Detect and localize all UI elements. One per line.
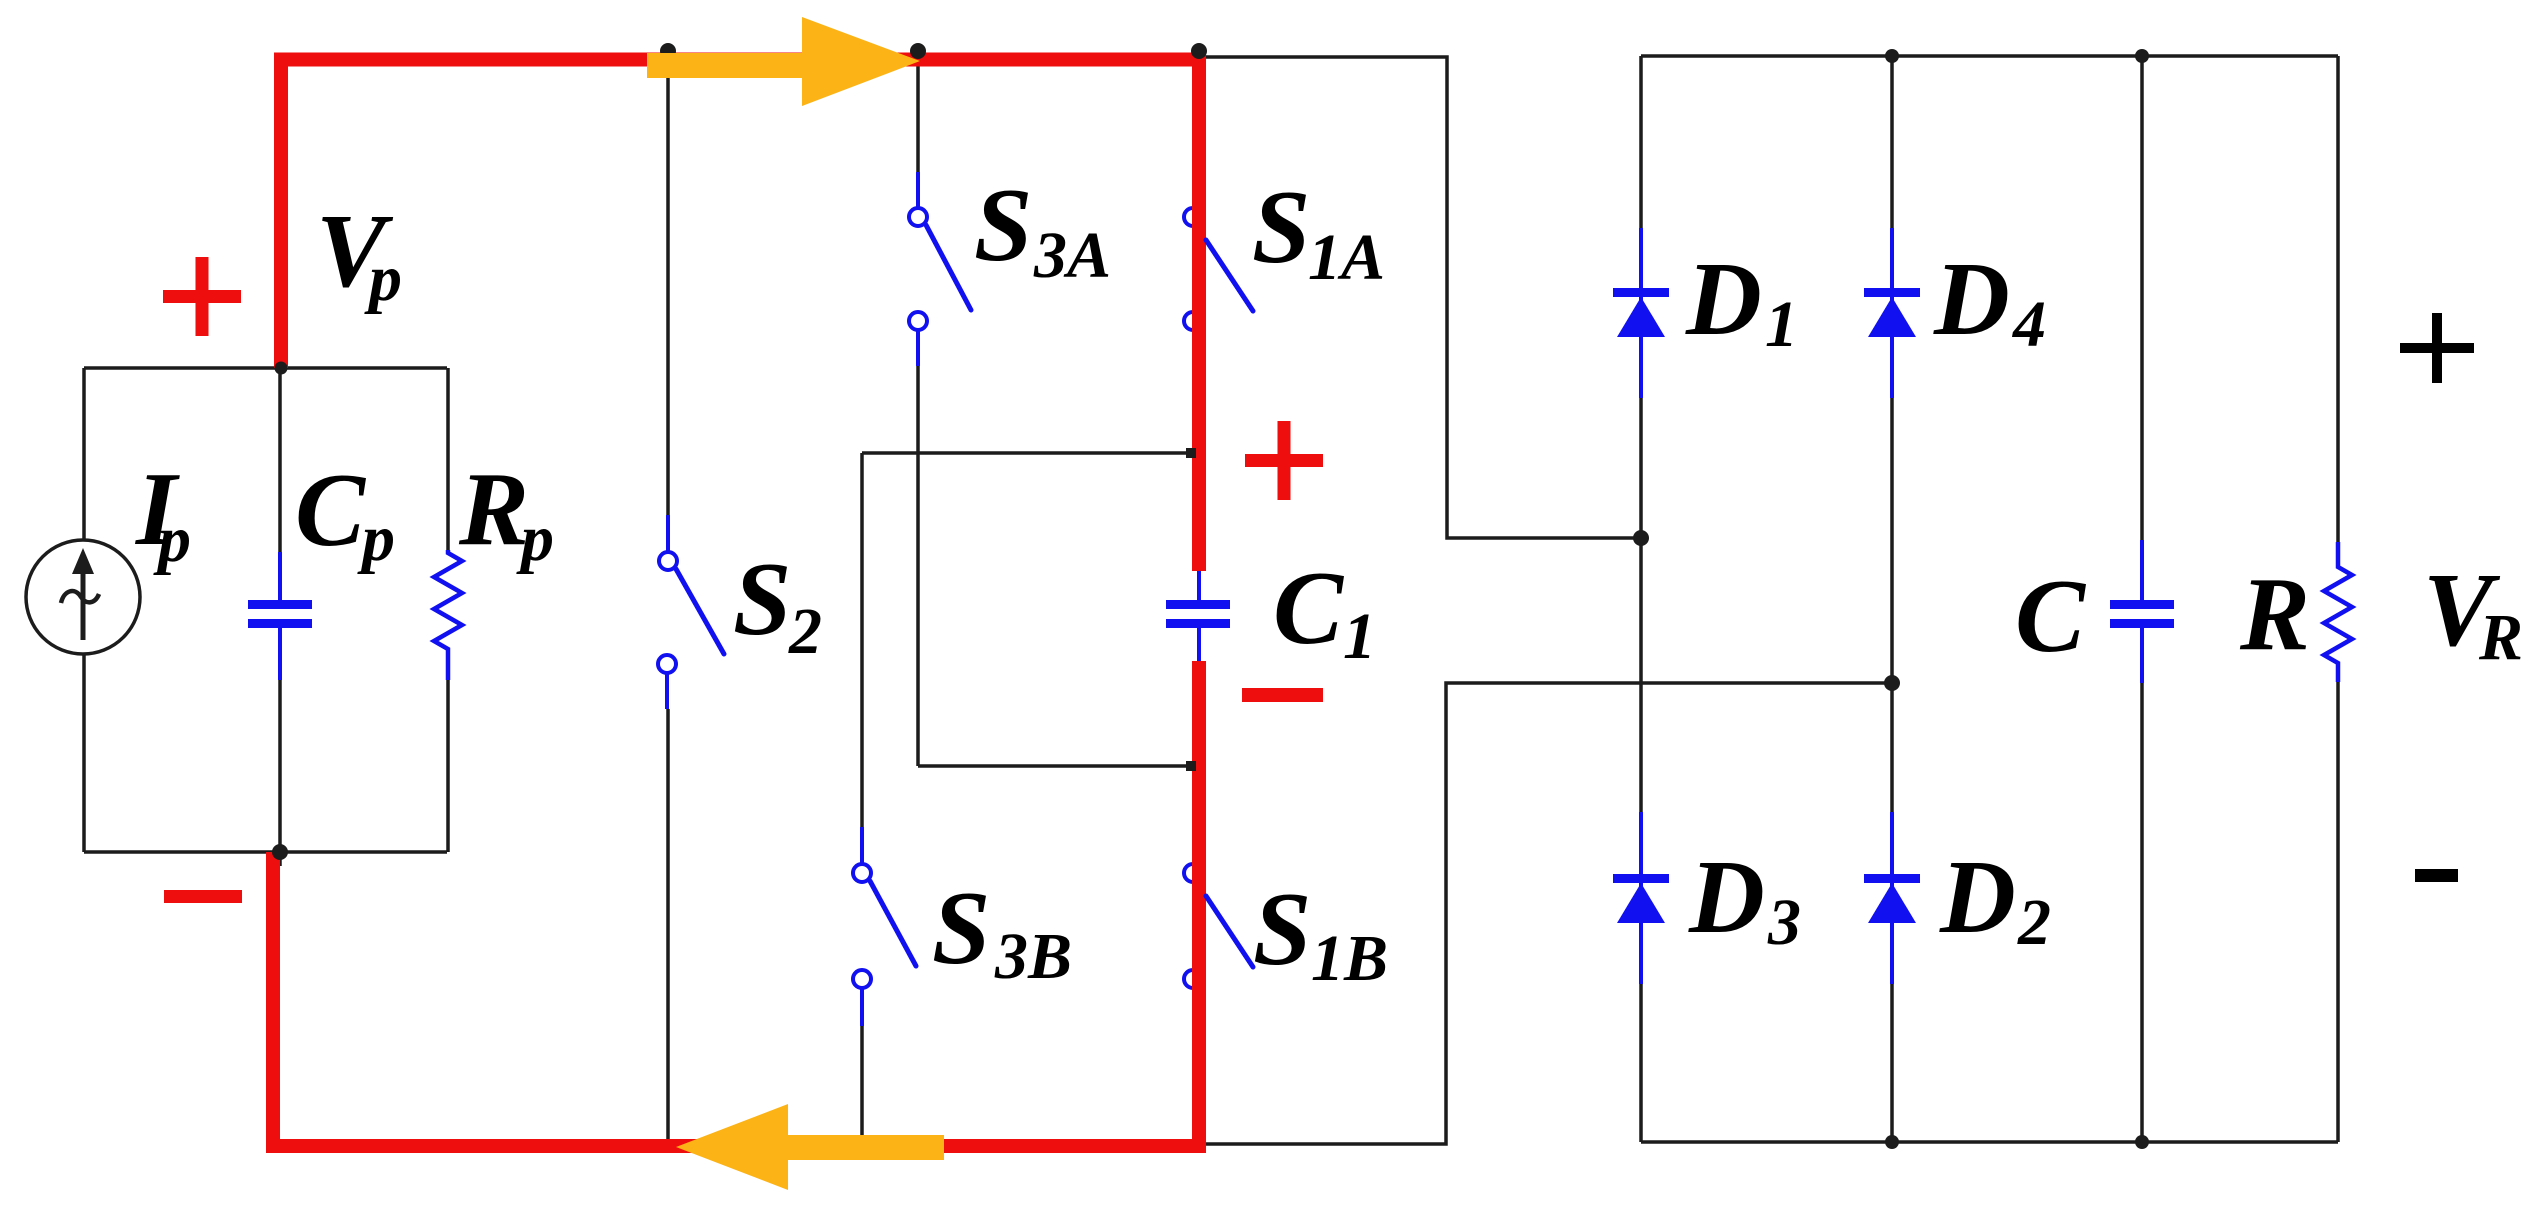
- svg-text:R: R: [458, 450, 529, 567]
- svg-text:p: p: [357, 502, 395, 575]
- svg-text:R: R: [2239, 555, 2310, 672]
- svg-text:3: 3: [1767, 886, 1801, 959]
- svg-text:R: R: [2478, 601, 2523, 674]
- svg-text:S: S: [1252, 168, 1310, 285]
- svg-text:D: D: [1933, 240, 2010, 357]
- svg-text:3B: 3B: [994, 920, 1072, 993]
- svg-text:S: S: [974, 166, 1032, 283]
- svg-text:2: 2: [788, 595, 822, 668]
- svg-text:S: S: [733, 540, 791, 657]
- svg-text:1: 1: [1343, 600, 1376, 673]
- svg-text:2: 2: [2017, 886, 2051, 959]
- svg-text:p: p: [516, 502, 554, 575]
- svg-text:1B: 1B: [1311, 922, 1388, 995]
- svg-text:C: C: [295, 451, 367, 568]
- svg-text:D: D: [1688, 838, 1765, 955]
- svg-text:p: p: [364, 242, 402, 315]
- svg-text:C: C: [2015, 557, 2087, 674]
- svg-text:S: S: [1253, 870, 1311, 987]
- svg-text:D: D: [1939, 838, 2016, 955]
- svg-text:1A: 1A: [1308, 221, 1385, 294]
- svg-text:1: 1: [1765, 288, 1798, 361]
- svg-text:3A: 3A: [1033, 219, 1111, 292]
- svg-text:4: 4: [2011, 288, 2046, 361]
- svg-text:C: C: [1273, 549, 1345, 666]
- svg-text:S: S: [932, 869, 990, 986]
- svg-text:D: D: [1685, 240, 1762, 357]
- svg-text:p: p: [153, 503, 191, 576]
